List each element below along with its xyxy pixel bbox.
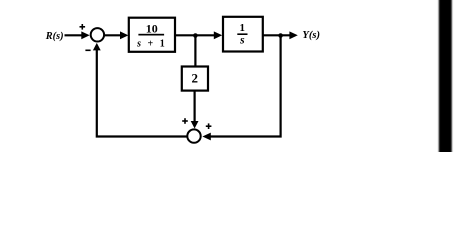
svg-text:10: 10: [146, 22, 158, 36]
svg-text:1: 1: [239, 22, 245, 34]
svg-text:R(s): R(s): [45, 31, 64, 42]
svg-text:Y(s): Y(s): [302, 30, 320, 41]
svg-text:s: s: [239, 35, 245, 47]
svg-text:s + 1: s + 1: [136, 39, 167, 50]
svg-text:2: 2: [191, 71, 198, 86]
